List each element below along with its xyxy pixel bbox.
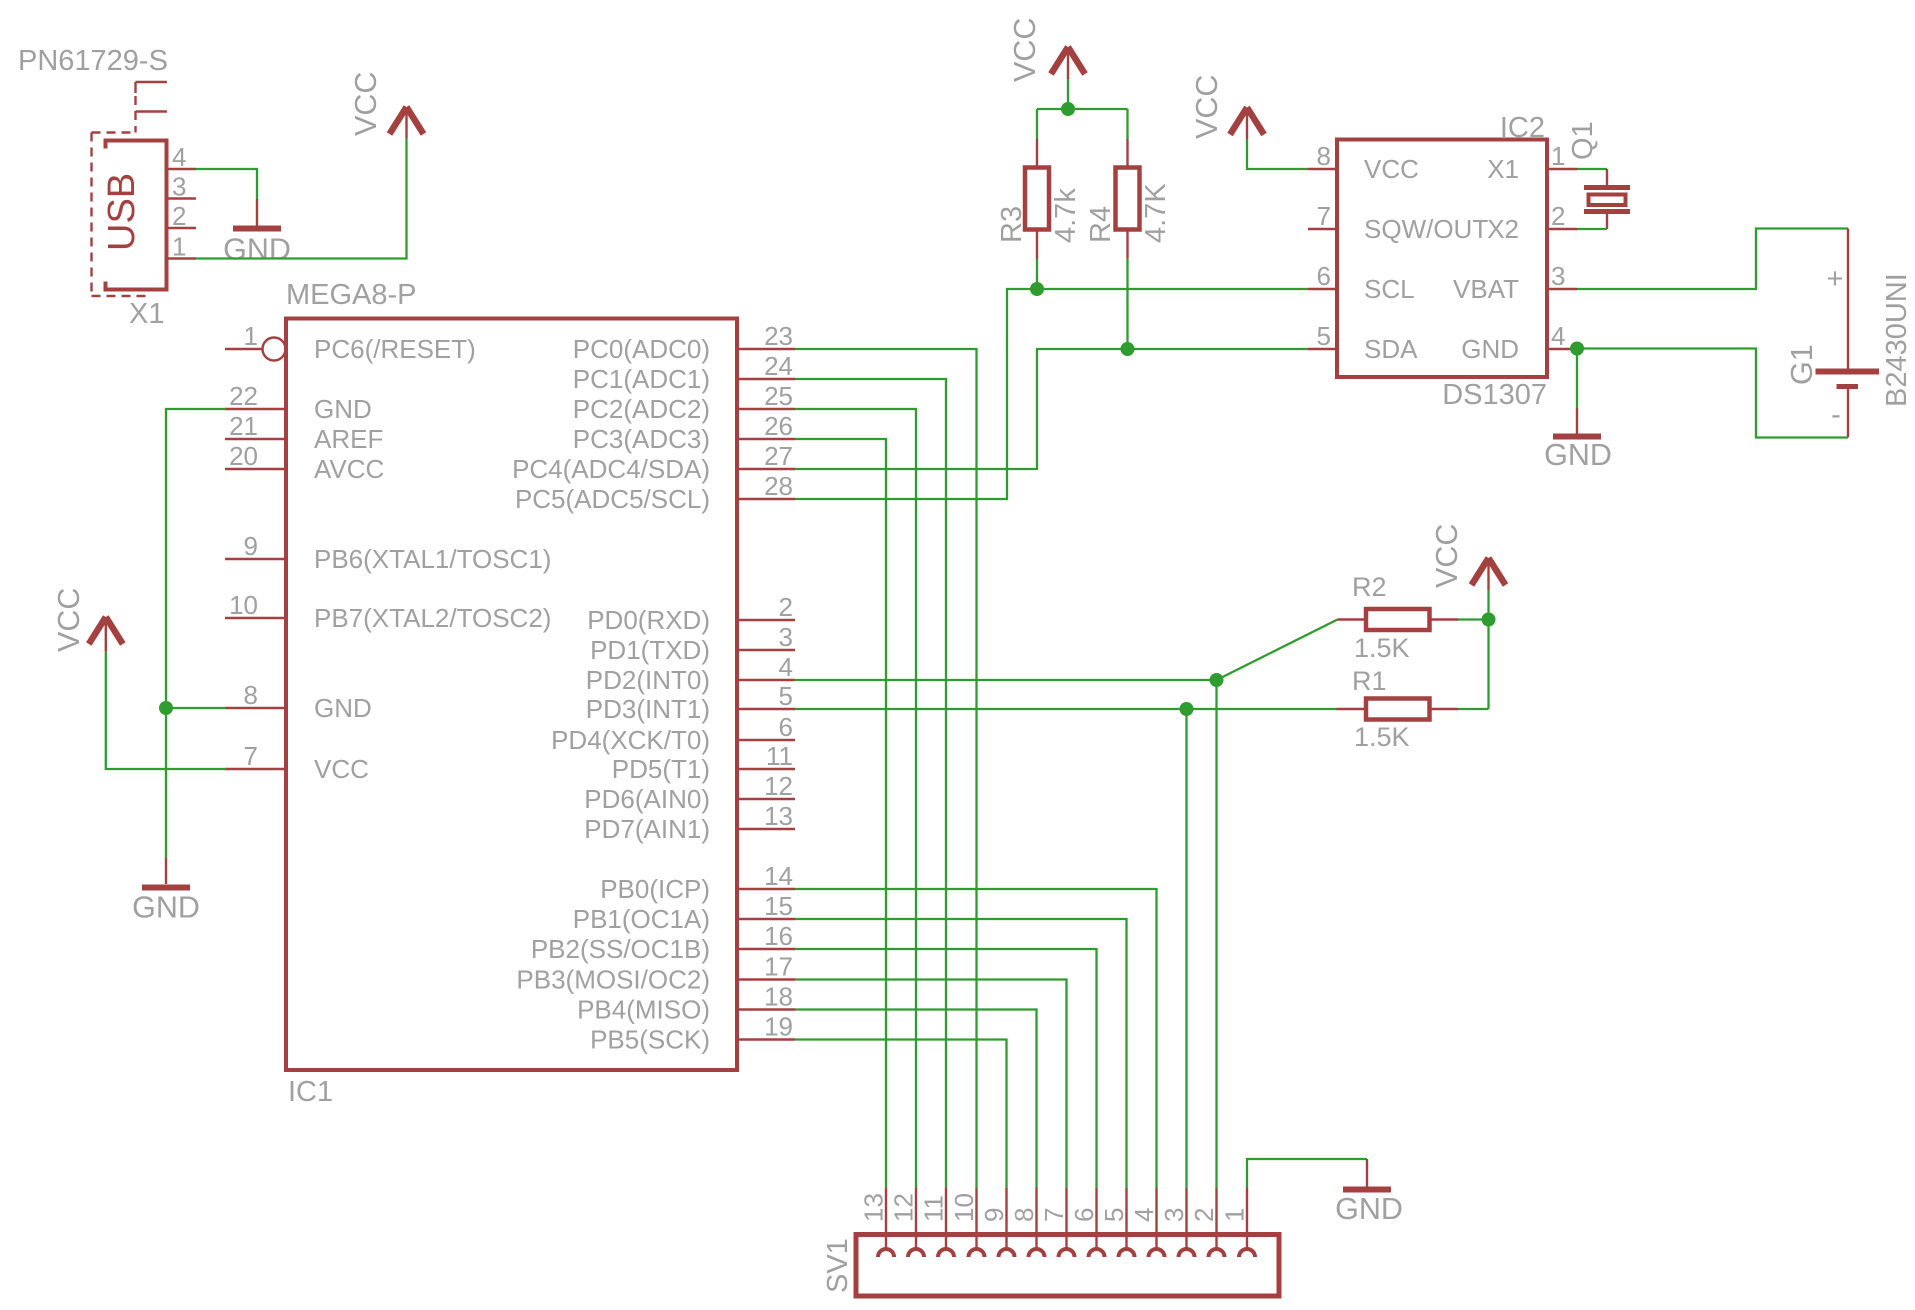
svg-text:VCC: VCC [1008,18,1042,82]
wire diagonal to R2 [1217,620,1338,681]
svg-text:SCL: SCL [1364,274,1415,304]
svg-text:1.5K: 1.5K [1354,722,1410,752]
svg-text:4.7K: 4.7K [1140,183,1172,243]
svg-text:B2430UNI: B2430UNI [1881,273,1913,407]
SV1 pin 3 [1159,1188,1195,1257]
svg-text:PC6(/RESET): PC6(/RESET) [314,334,476,364]
svg-text:PB6(XTAL1/TOSC1): PB6(XTAL1/TOSC1) [314,544,551,574]
IC1 pin 4 PD2(INT0) [586,652,795,695]
svg-text:22: 22 [229,381,258,411]
svg-text:GND: GND [314,693,372,723]
svg-text:2: 2 [1189,1208,1219,1222]
svg-text:12: 12 [889,1193,919,1222]
junction IC2 pin4 GND [1570,342,1584,356]
svg-text:GND: GND [1544,438,1612,472]
svg-text:PD4(XCK/T0): PD4(XCK/T0) [551,725,710,755]
IC1 pin 3 PD1(TXD) [590,622,795,665]
IC1 pin 24 PC1(ADC1) [573,351,795,394]
wire USB pin1 to VCC [196,138,407,259]
svg-text:X2: X2 [1487,214,1519,244]
IC2 pin 4 GND [1461,321,1577,364]
svg-text:4: 4 [779,652,793,682]
wire IC1 pin17 to SV1 [795,980,1067,1189]
SV1 pin 1 [1220,1188,1256,1257]
resistor R3 4.7k [1025,139,1049,259]
wire IC1 pin16 to SV1 [795,949,1097,1188]
IC2 pin 8 VCC [1308,141,1419,184]
junction GND at pin8 [159,701,173,715]
connector SV1 body [856,1235,1279,1297]
svg-text:20: 20 [229,441,258,471]
svg-text:R2: R2 [1352,572,1387,602]
wire INT1 to R1 [1187,708,1337,710]
svg-text:1: 1 [1551,141,1565,171]
svg-text:8: 8 [244,680,258,710]
svg-text:PB4(MISO): PB4(MISO) [577,995,710,1025]
wire IC1 pin7 VCC [106,651,226,769]
IC2 pin 7 SQW/OUT [1308,201,1488,244]
svg-text:26: 26 [764,411,793,441]
svg-text:13: 13 [764,801,793,831]
svg-text:6: 6 [1069,1208,1099,1222]
IC1 pin 12 PD6(AIN0) [584,771,795,814]
IC1 pin 28 PC5(ADC5/SCL) [515,471,795,514]
wire INT1 node down to SV1 pin3 [1185,709,1187,1188]
svg-text:4.7k: 4.7k [1050,188,1082,243]
IC2 pin 1 X1 [1487,141,1577,184]
IC1 pin 22 GND [225,381,372,424]
IC1 pin 15 PB1(OC1A) [573,891,795,934]
junction SCL / R3 [1030,282,1044,296]
power symbol VCC (IC1 left) [89,617,123,651]
wire crystal to IC2 pin2 [1577,228,1607,230]
resistor R4 4.7K [1116,139,1140,259]
wire IC1 pin18 to SV1 [795,1010,1037,1189]
svg-text:X1: X1 [1487,154,1519,184]
svg-text:2: 2 [1551,201,1565,231]
power symbol VCC (USB) [390,107,424,138]
svg-text:3: 3 [172,172,186,202]
svg-text:PC3(ADC3): PC3(ADC3) [573,424,710,454]
svg-text:VCC: VCC [52,588,86,652]
svg-text:-: - [1831,399,1841,431]
IC1 pin 17 PB3(MOSI/OC2) [516,952,795,995]
svg-text:VCC: VCC [1430,524,1464,588]
svg-text:USB: USB [101,173,143,251]
IC U1 ATmega8 IC1 body [286,319,737,1071]
svg-text:24: 24 [764,351,793,381]
junction INT1 node [1180,702,1194,716]
wire SDA net: IC1 pin27 to IC2 pin5 [795,349,1308,469]
svg-text:IC2: IC2 [1500,112,1545,144]
svg-text:VCC: VCC [314,754,369,784]
svg-text:3: 3 [1159,1208,1189,1222]
ground symbol (IC1 left) [142,858,190,888]
wire VCC node down to R1 [1487,620,1489,710]
IC1 pin 6 PD4(XCK/T0) [551,712,795,755]
svg-text:21: 21 [229,411,258,441]
svg-text:14: 14 [764,861,793,891]
wire SCL net: IC1 pin28 to IC2 pin6 [795,289,1308,499]
wire IC1 pin15 to SV1 [795,919,1127,1188]
svg-text:8: 8 [1009,1208,1039,1222]
SV1 pin 10 [949,1188,985,1257]
IC1 pin 14 PB0(ICP) [600,861,795,904]
svg-text:27: 27 [764,441,793,471]
battery G1 B2430UNI [1816,229,1880,438]
svg-text:23: 23 [764,321,793,351]
wire IC1 pin14 to SV1 [795,889,1157,1188]
IC1 pin 25 PC2(ADC2) [573,381,795,424]
wire battery - to GND net [1577,349,1848,438]
svg-text:AVCC: AVCC [314,454,384,484]
svg-text:GND: GND [1461,334,1519,364]
junction INT0 node [1210,673,1224,687]
wire R3 to SCL [1036,259,1038,290]
svg-text:PC4(ADC4/SDA): PC4(ADC4/SDA) [512,454,710,484]
IC2 pin 5 SDA [1308,321,1418,364]
svg-text:10: 10 [229,590,258,620]
svg-text:PB7(XTAL2/TOSC2): PB7(XTAL2/TOSC2) [314,603,551,633]
X1 pin 4 [168,142,196,172]
svg-text:28: 28 [764,471,793,501]
svg-text:PB1(OC1A): PB1(OC1A) [573,904,710,934]
svg-text:7: 7 [244,741,258,771]
SV1 pin 11 [919,1188,955,1257]
wire IC1 pin25 to SV1 [795,409,916,1188]
svg-text:PD7(AIN1): PD7(AIN1) [584,814,710,844]
svg-text:PD5(T1): PD5(T1) [612,754,710,784]
svg-text:5: 5 [1099,1208,1129,1222]
X1 pin 1 [168,232,196,262]
svg-text:VCC: VCC [349,72,383,136]
svg-text:PD1(TXD): PD1(TXD) [590,635,710,665]
wire R2 to VCC node [1458,618,1489,620]
svg-text:1: 1 [1220,1208,1250,1222]
wire IC1 pin26 to SV1 [795,439,886,1188]
svg-text:6: 6 [779,712,793,742]
svg-text:R3: R3 [996,206,1028,243]
wire VCC arrow to node [1487,590,1489,620]
IC1 pin 7 VCC [225,741,369,784]
IC1 pin 27 PC4(ADC4/SDA) [512,441,795,484]
wire down to R4 [1126,109,1128,139]
svg-text:4: 4 [1551,321,1565,351]
X1 pin 2 [168,201,196,231]
svg-text:R1: R1 [1352,666,1387,696]
IC1 pin 21 AREF [225,411,383,454]
svg-text:PB2(SS/OC1B): PB2(SS/OC1B) [531,934,710,964]
IC1 pin 1 PC6(/RESET) [225,321,476,364]
IC1 pin 9 PB6(XTAL1/TOSC1) [225,531,551,574]
IC1 pin 10 PB7(XTAL2/TOSC2) [225,590,551,633]
svg-text:3: 3 [779,622,793,652]
svg-text:7: 7 [1317,201,1331,231]
resistor R2 1.5K [1338,609,1459,630]
IC1 pin 19 PB5(SCK) [590,1012,795,1055]
svg-text:PB3(MOSI/OC2): PB3(MOSI/OC2) [516,965,710,995]
IC1 pin 5 PD3(INT1) [586,681,795,724]
svg-text:DS1307: DS1307 [1442,379,1547,411]
svg-text:17: 17 [764,952,793,982]
svg-text:IC1: IC1 [288,1076,333,1108]
IC2 pin 6 SCL [1308,261,1415,304]
IC1 pin 23 PC0(ADC0) [573,321,795,364]
svg-text:2: 2 [172,201,186,231]
X1 pin 3 [168,172,196,202]
SV1 pin 4 [1129,1188,1165,1257]
wire IC1 pin22 GND down to pin8 [166,409,226,708]
wire down to R3 [1036,109,1038,139]
svg-text:PC1(ADC1): PC1(ADC1) [573,364,710,394]
svg-text:G1: G1 [1785,344,1819,385]
power symbol VCC (top, R3/R4) [1051,47,1085,79]
SV1 pin 12 [889,1188,925,1257]
svg-text:MEGA8-P: MEGA8-P [286,279,417,311]
svg-text:PC0(ADC0): PC0(ADC0) [573,334,710,364]
svg-text:PC5(ADC5/SCL): PC5(ADC5/SCL) [515,484,710,514]
svg-text:12: 12 [764,771,793,801]
svg-text:11: 11 [766,741,793,771]
svg-text:GND: GND [132,891,200,925]
svg-text:9: 9 [979,1208,1009,1222]
power symbol VCC (right) [1472,558,1506,590]
svg-text:VCC: VCC [1190,75,1224,139]
SV1 pin 9 [979,1188,1015,1257]
svg-text:PB0(ICP): PB0(ICP) [600,874,710,904]
svg-text:3: 3 [1551,261,1565,291]
svg-text:6: 6 [1317,261,1331,291]
svg-text:1: 1 [244,321,258,351]
wire R1 right to VCC column [1458,708,1489,710]
svg-text:13: 13 [859,1193,889,1222]
svg-text:4: 4 [1129,1208,1159,1222]
svg-text:SV1: SV1 [822,1238,854,1293]
ground symbol (IC2) [1553,408,1601,437]
IC1 pin 16 PB2(SS/OC1B) [531,921,795,964]
IC1 pin 11 PD5(T1) [612,741,795,784]
wire VCC rail across R3/R4 tops [1037,108,1128,110]
svg-text:2: 2 [779,592,793,622]
svg-text:GND: GND [223,233,291,267]
svg-text:11: 11 [919,1195,949,1222]
svg-text:AREF: AREF [314,424,383,454]
svg-text:1.5K: 1.5K [1354,633,1410,663]
svg-text:4: 4 [172,142,186,172]
wire IC1 pin24 to SV1 [795,379,946,1188]
svg-text:PB5(SCK): PB5(SCK) [590,1025,710,1055]
svg-text:7: 7 [1039,1208,1069,1222]
IC1 pin 13 PD7(AIN1) [584,801,795,844]
ground symbol (USB) [233,199,281,229]
svg-text:SDA: SDA [1364,334,1418,364]
svg-text:VBAT: VBAT [1453,274,1519,304]
wire junction down to ground [1576,349,1578,409]
svg-text:VCC: VCC [1364,154,1419,184]
svg-text:25: 25 [764,381,793,411]
wire IC1 pin4 INT0 [795,679,1217,681]
svg-text:GND: GND [1335,1192,1403,1226]
svg-text:9: 9 [244,531,258,561]
svg-text:PD3(INT1): PD3(INT1) [586,694,710,724]
power symbol VCC (IC2) [1230,108,1264,140]
SV1 pin 2 [1189,1188,1225,1257]
SV1 pin 5 [1099,1188,1135,1257]
svg-text:+: + [1827,263,1844,295]
wire SV1 pin1 to ground [1247,1159,1367,1188]
svg-text:15: 15 [764,891,793,921]
IC U2 DS1307 IC2 body [1337,140,1547,378]
IC2 pin 2 X2 [1487,201,1577,244]
wire VBAT: IC2 pin3 to battery + [1577,229,1848,290]
SV1 pin 7 [1039,1188,1075,1257]
svg-text:SQW/OUT: SQW/OUT [1364,214,1488,244]
wire VCC to IC2 pin8 [1247,139,1308,169]
IC1 pin 18 PB4(MISO) [577,982,795,1025]
svg-text:GND: GND [314,394,372,424]
wire IC2 pin1 to crystal [1577,168,1607,170]
wire R4 to SDA [1126,259,1128,350]
svg-text:5: 5 [1317,321,1331,351]
svg-text:PD6(AIN0): PD6(AIN0) [584,784,710,814]
wire IC1 pin5 INT1 [795,708,1187,710]
svg-text:PD2(INT0): PD2(INT0) [586,665,710,695]
wire IC1 pin23 to SV1 [795,349,977,1188]
svg-text:1: 1 [172,232,186,262]
svg-text:8: 8 [1317,141,1331,171]
svg-text:Q1: Q1 [1567,121,1599,160]
SV1 pin 6 [1069,1188,1105,1257]
junction SDA / R4 [1121,342,1135,356]
IC1 pin 2 PD0(RXD) [587,592,795,635]
wire junction to IC1 pin8 [166,707,226,709]
svg-text:X1: X1 [129,298,164,330]
wire VCC arrow down [1067,79,1069,109]
svg-text:PD0(RXD): PD0(RXD) [587,605,710,635]
svg-text:16: 16 [764,921,793,951]
IC1 pin 26 PC3(ADC3) [573,411,795,454]
svg-text:19: 19 [764,1012,793,1042]
wire IC1 pin19 to SV1 [795,1040,1007,1189]
junction VCC node (R2) [1482,613,1496,627]
svg-text:R4: R4 [1085,206,1117,243]
SV1 pin 13 [859,1188,895,1257]
svg-text:PC2(ADC2): PC2(ADC2) [573,394,710,424]
IC1 pin 8 GND [225,680,372,723]
svg-text:5: 5 [779,681,793,711]
svg-text:10: 10 [949,1193,979,1222]
wire GND junction down to ground [165,708,167,858]
resistor R1 1.5K [1337,699,1459,720]
USB connector X1 (PN61729-S) [92,82,167,296]
IC1 pin 20 AVCC [225,441,384,484]
IC2 pin 3 VBAT [1453,261,1577,304]
wire USB pin4 to ground [196,169,257,199]
ground symbol (SV1) [1343,1159,1391,1190]
crystal Q1 [1584,169,1630,229]
svg-text:PN61729-S: PN61729-S [18,45,168,77]
svg-text:18: 18 [764,982,793,1012]
wire INT0 node down to SV1 pin2 [1215,680,1217,1188]
SV1 pin 8 [1009,1188,1045,1257]
junction VCC node [1061,102,1075,116]
